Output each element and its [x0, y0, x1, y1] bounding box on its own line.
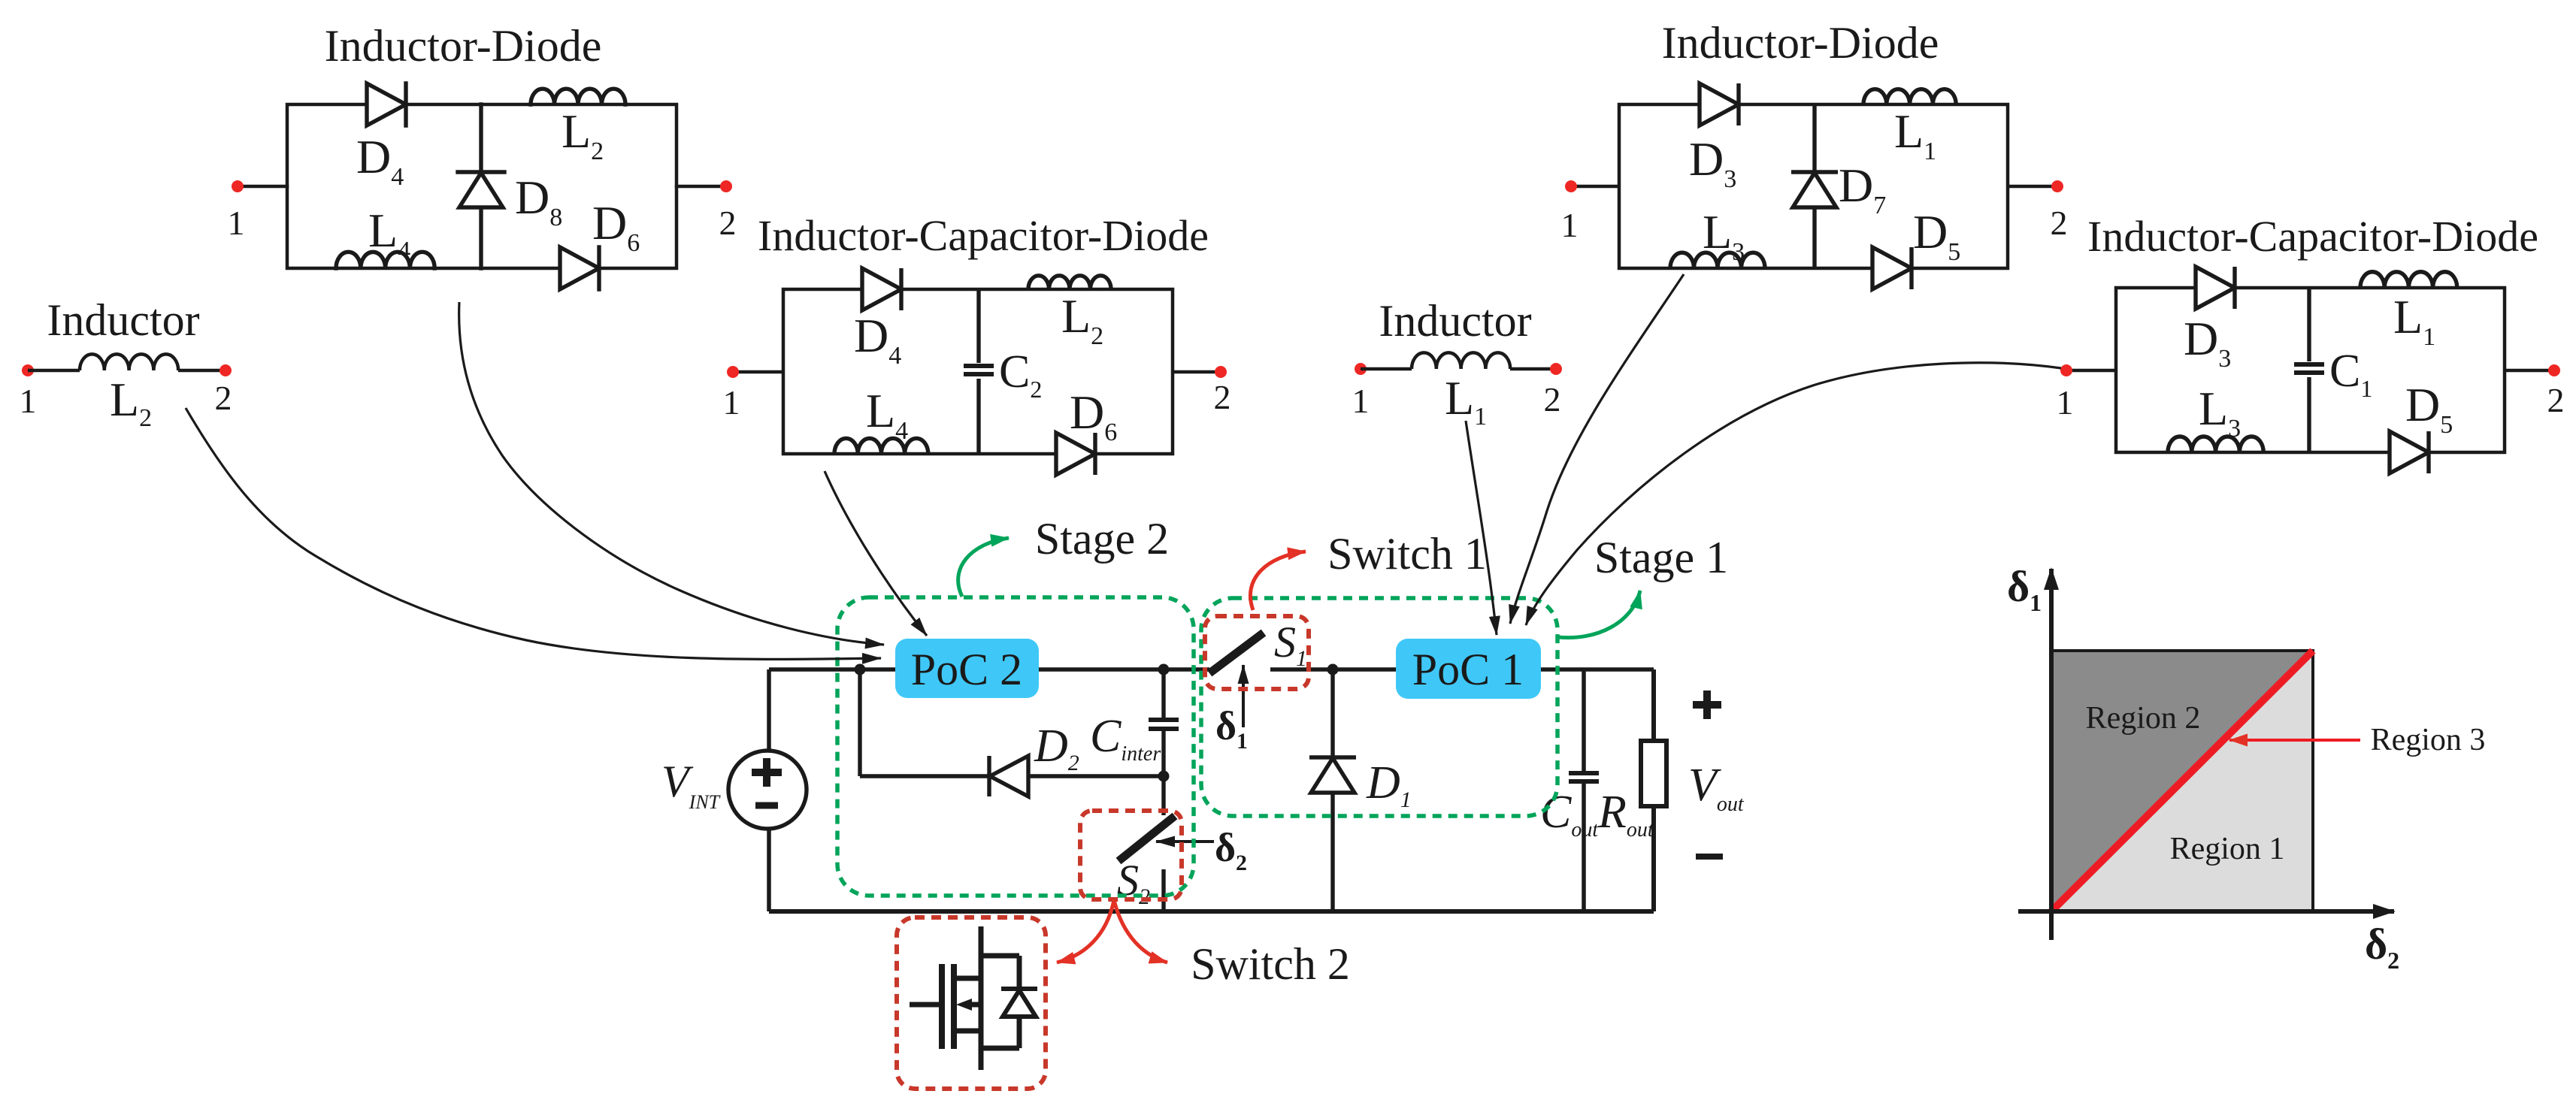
diode D4 (top branch, pointing right) — [367, 83, 406, 125]
wire: bottom rail — [769, 909, 1654, 914]
wire: top rail left segment — [769, 667, 1209, 672]
wire: terminal 1 lead — [733, 370, 783, 374]
inductor L2 — [80, 354, 178, 370]
inductor L3 (bottom-left branch) — [2168, 437, 2263, 452]
inductor L4 (bottom-left branch) — [336, 252, 434, 268]
diode D3 (top branch, pointing right) — [1700, 83, 1739, 125]
wire: left rail — [767, 669, 771, 911]
Region 1 light triangle — [2051, 651, 2313, 911]
node 2 (red dot) — [1215, 366, 1227, 378]
svg-text:Inductor-Capacitor-Diode: Inductor-Capacitor-Diode — [758, 211, 1209, 260]
wire: terminal 2 lead — [2505, 369, 2554, 373]
red arrow to Switch 2 label — [1114, 900, 1167, 962]
inductor L1 — [1412, 352, 1510, 369]
arrow delta2 (points left at S2) — [1156, 840, 1214, 843]
MOSFET gate lead — [910, 1002, 942, 1008]
svg-text:Region 3: Region 3 — [2371, 723, 2486, 757]
node 1 (red dot) — [232, 180, 244, 192]
node 2 (red dot) — [219, 364, 232, 376]
wire: lead from node 1 — [1361, 367, 1412, 371]
black arrow: block A inductor-diode to PoC 2 — [459, 302, 884, 645]
svg-text:2: 2 — [1214, 378, 1231, 416]
capacitor C_inter — [1149, 720, 1179, 729]
svg-text:Region 1: Region 1 — [2170, 832, 2285, 866]
wire: terminal 2 lead — [677, 185, 726, 189]
wire: middle vertical branch upper — [976, 289, 980, 363]
node 1 (red dot) — [2060, 364, 2072, 376]
wire: D1 branch lower — [1330, 793, 1334, 911]
diode D3 (top branch, pointing right) — [2196, 267, 2235, 309]
svg-text:2: 2 — [2051, 204, 2068, 242]
arrow delta1 (points up at S1) — [1242, 665, 1245, 727]
svg-text:Switch 1: Switch 1 — [1327, 529, 1487, 579]
square outline — [2051, 651, 2313, 911]
node 2 (red dot) — [2548, 364, 2560, 376]
inductor L2 (top-right branch) — [1028, 276, 1111, 289]
wire: terminal 2 lead — [2008, 185, 2057, 189]
wire: C_out branch lower — [1582, 784, 1586, 911]
wire: D2 branch vertical — [858, 669, 861, 776]
node: junction D2/C_inter — [1158, 771, 1170, 782]
svg-text:2: 2 — [719, 204, 737, 242]
MOSFET gate bar — [939, 964, 945, 1049]
wire: middle vertical branch lower — [976, 379, 980, 454]
block C outline box — [783, 289, 1173, 454]
wire: right rail upper — [1651, 669, 1656, 741]
MOSFET body-diode upper lead — [1017, 956, 1022, 989]
red arrow to Switch 1 — [1250, 552, 1306, 610]
svg-text:Inductor-Diode: Inductor-Diode — [325, 21, 602, 71]
wire: D1 branch upper — [1330, 669, 1334, 757]
svg-text:Stage 1: Stage 1 — [1594, 533, 1728, 582]
wire: C_inter upper stub — [1161, 669, 1165, 718]
svg-text:1: 1 — [2057, 383, 2074, 422]
PoC 2 box — [895, 639, 1039, 698]
wire: lead to node 2 — [1510, 367, 1556, 371]
node 2 (red dot) — [1550, 363, 1562, 375]
red diagonal (Region 3) — [2051, 651, 2313, 911]
wire: terminal 1 lead — [238, 185, 287, 189]
wire: terminal 1 lead — [1571, 185, 1619, 189]
svg-text:PoC 2: PoC 2 — [911, 645, 1022, 694]
Stage 1 dashed green box — [1201, 598, 1557, 816]
inductor L1 (top-right branch) — [1863, 89, 1956, 104]
wire: middle vertical branch lower — [2307, 377, 2311, 452]
diode D8 (middle branch, pointing up) — [458, 172, 504, 207]
black arrow: block D inductor to PoC 1 — [1466, 421, 1497, 635]
capacitor C1 — [2294, 364, 2324, 373]
diode D5 (bottom branch, pointing right) — [2390, 431, 2429, 473]
diode D4 (top branch, pointing right) — [862, 268, 901, 310]
svg-text:Inductor: Inductor — [47, 295, 199, 345]
inductor L2 (top-right branch) — [531, 89, 625, 104]
node 1 (red dot) — [727, 366, 739, 378]
wire: middle vertical branch — [479, 104, 483, 268]
Switch 2 dashed red box — [1080, 811, 1182, 899]
voltage source V_INT — [728, 751, 807, 829]
svg-text:Switch 2: Switch 2 — [1191, 939, 1350, 989]
MOSFET drain stub — [954, 976, 981, 981]
minus sign (output polarity) — [1696, 854, 1723, 860]
wire: terminal 2 lead — [1173, 370, 1221, 374]
block E outline box — [1619, 104, 2008, 268]
black arrow: block E inductor-diode to PoC 1 — [1510, 274, 1684, 624]
black arrow: block F inductor-capacitor-diode to PoC 1 — [1526, 363, 2061, 625]
switch S1 blade — [1209, 633, 1264, 673]
node 2 (red dot) — [2051, 180, 2063, 192]
wire: middle vertical branch — [1812, 104, 1816, 268]
red arrow from Region 3 label to diagonal — [2229, 739, 2360, 742]
node 2 (red dot) — [720, 180, 732, 192]
capacitor C2 — [964, 366, 994, 374]
node: junction right of S1 (D1 branch) — [1327, 664, 1339, 675]
inductor L4 (bottom-left branch) — [834, 438, 928, 454]
node 1 (red dot) — [1565, 180, 1577, 192]
MOSFET body diode (pointing up) — [1003, 990, 1036, 1017]
Region 2 dark triangle — [2051, 651, 2313, 911]
wire: right rail lower — [1651, 806, 1656, 911]
wire: C_inter lower stub down to switch S2 — [1161, 731, 1165, 815]
svg-text:Region 2: Region 2 — [2086, 701, 2201, 736]
node: junction C_inter top — [1158, 664, 1170, 675]
MOSFET body stub with arrow — [968, 1002, 981, 1008]
MOSFET channel bar — [951, 964, 957, 1049]
wire: terminal 1 lead — [2066, 369, 2116, 373]
diode D6 (bottom branch, pointing right) — [1056, 433, 1095, 475]
wire: D2 branch horizontal — [860, 774, 1164, 778]
diode D2 (pointing left) — [989, 756, 1028, 796]
svg-text:Inductor-Diode: Inductor-Diode — [1662, 18, 1939, 68]
block F outline box — [2116, 288, 2505, 452]
wire: lead from node 1 — [28, 369, 80, 373]
green arrow to Stage 2 — [958, 538, 1009, 597]
x axis (delta2) — [2018, 909, 2394, 914]
diode D5 (bottom branch, pointing right) — [1872, 247, 1912, 289]
black arrow: block B inductor to PoC 2 — [186, 408, 881, 659]
Stage 2 dashed green box — [837, 597, 1194, 896]
inductor L3 (bottom-left branch) — [1670, 252, 1765, 268]
MOSFET source stub — [954, 1029, 981, 1034]
MOSFET spine (drain-source conductor) — [979, 926, 984, 1070]
switch S2 blade — [1118, 816, 1175, 861]
wire: C_out branch upper — [1582, 669, 1586, 771]
plus sign (output polarity) — [1693, 691, 1721, 719]
svg-text:1: 1 — [1561, 206, 1579, 244]
svg-text:2: 2 — [215, 379, 232, 417]
diode D6 (bottom branch, pointing right) — [560, 247, 599, 289]
svg-text:1: 1 — [228, 204, 245, 242]
capacitor C_out — [1569, 773, 1599, 781]
red arrow to MOSFET box — [1057, 900, 1114, 962]
block A outline box — [287, 104, 677, 268]
svg-text:Inductor: Inductor — [1379, 296, 1531, 346]
svg-text:PoC 1: PoC 1 — [1412, 645, 1524, 694]
svg-text:Inductor-Capacitor-Diode: Inductor-Capacitor-Diode — [2087, 212, 2538, 261]
diode D7 (middle branch, pointing up) — [1791, 172, 1838, 207]
diode D1 (pointing up) — [1309, 757, 1356, 793]
svg-text:1: 1 — [1352, 382, 1370, 420]
MOSFET body-diode lower lead — [1017, 1017, 1022, 1048]
resistor R_out — [1641, 741, 1666, 806]
wire: S2 lower contact — [1161, 869, 1165, 911]
wire: top rail right segment — [1270, 667, 1654, 672]
wire: middle vertical branch upper — [2307, 288, 2311, 361]
svg-text:1: 1 — [20, 382, 37, 420]
Switch 1 dashed red box — [1205, 616, 1309, 689]
svg-text:1: 1 — [723, 383, 740, 422]
MOSFET dashed red box — [897, 917, 1046, 1089]
svg-text:2: 2 — [1544, 380, 1561, 419]
node 1 (red dot) — [22, 364, 34, 376]
green arrow to Stage 1 — [1558, 591, 1640, 638]
MOSFET body-diode top link — [981, 953, 1019, 959]
black arrow: block C inductor-capacitor-diode to PoC 2 — [825, 471, 927, 636]
inductor L1 (top-right branch) — [2360, 272, 2457, 288]
MOSFET body-diode bottom link — [981, 1046, 1019, 1051]
y axis (delta1) — [2049, 569, 2054, 940]
node: junction on top rail (D2 branch) — [855, 664, 866, 675]
PoC 1 box — [1396, 639, 1541, 699]
svg-text:Stage 2: Stage 2 — [1035, 514, 1169, 564]
node 1 (red dot) — [1355, 363, 1367, 375]
svg-text:2: 2 — [2547, 381, 2565, 419]
wire: lead to node 2 — [178, 369, 226, 373]
